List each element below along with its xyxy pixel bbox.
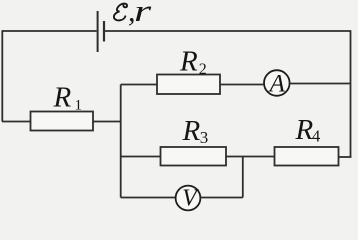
svg-text:V: V — [182, 185, 199, 211]
wire: center vertical bus — [120, 85, 122, 198]
svg-text:R: R — [182, 115, 201, 147]
svg-text:R: R — [179, 46, 198, 78]
label R1 — [53, 81, 83, 113]
wire: top horizontal from left corner to battery — [2, 30, 97, 32]
ammeter A — [264, 70, 290, 97]
voltmeter V — [176, 185, 201, 211]
resistor R1 — [31, 112, 94, 131]
wire: bus to R2 — [121, 84, 157, 86]
label R3 — [182, 115, 209, 147]
svg-text:3: 3 — [200, 128, 209, 147]
svg-text:R: R — [53, 81, 72, 113]
wire: junction between R3 and R4 down to voltmeter — [242, 157, 244, 198]
svg-text:2: 2 — [199, 61, 207, 78]
label R4 — [295, 114, 321, 146]
wire: R4 to right side — [339, 156, 352, 158]
wire: R2 to ammeter — [220, 84, 263, 86]
resistor R4 — [275, 147, 339, 166]
svg-text:4: 4 — [312, 127, 320, 146]
label ℰ,r (emf and internal resistance) — [114, 0, 151, 28]
battery cell (EMF source, short plate) — [103, 21, 105, 42]
svg-text:R: R — [295, 114, 314, 146]
wire: left vertical side — [1, 30, 3, 121]
svg-text:1: 1 — [75, 97, 83, 113]
wire: right vertical side — [350, 30, 352, 157]
wire: left edge to R1 — [2, 121, 31, 123]
wire: voltmeter to junction vertical — [200, 197, 242, 199]
wire: R1 to center bus — [93, 121, 122, 123]
wire: bus to R3 — [121, 156, 161, 158]
resistor R3 — [161, 147, 227, 166]
wire: top horizontal from battery to right corner — [105, 30, 351, 32]
wire: bus bottom to voltmeter — [121, 197, 176, 199]
svg-text:r: r — [134, 0, 151, 28]
battery cell (EMF source, long plate) — [97, 11, 99, 52]
wire: R3 to R4 (with junction node to voltmeter) — [226, 156, 275, 158]
resistor R2 — [157, 75, 220, 95]
wire: ammeter to right side — [290, 83, 350, 85]
svg-text:A: A — [268, 70, 286, 97]
label R2 — [179, 46, 207, 78]
